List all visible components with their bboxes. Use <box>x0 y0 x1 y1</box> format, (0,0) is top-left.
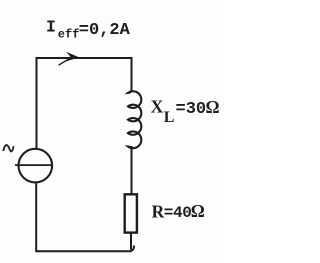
wire: right vertical bottom segment <box>131 233 134 251</box>
svg-text:X: X <box>151 96 164 116</box>
svg-text:I: I <box>46 18 56 37</box>
wire: left vertical bottom segment <box>35 183 37 252</box>
label XL = 30 ohm <box>151 96 220 126</box>
svg-text:L: L <box>164 109 175 126</box>
svg-text:=0,2A: =0,2A <box>79 21 131 40</box>
wire: bottom horizontal <box>36 250 132 252</box>
svg-text:=40: =40 <box>164 204 192 222</box>
wire: top horizontal <box>37 57 132 59</box>
wire: right vertical middle segment <box>131 146 133 195</box>
AC source G <box>15 149 52 183</box>
svg-text:Ω: Ω <box>206 97 220 117</box>
inductor L (XL) <box>128 90 141 150</box>
AC waveform tilde <box>3 145 13 151</box>
current direction arrow <box>59 52 80 65</box>
svg-text:eff: eff <box>58 28 80 42</box>
label R = 40 ohm <box>152 201 205 222</box>
resistor R <box>125 194 137 232</box>
wire: right vertical top segment <box>131 57 133 91</box>
svg-text:=30: =30 <box>176 100 207 119</box>
wire: left vertical top segment <box>36 57 38 148</box>
label Ieff = 0,2A <box>46 18 131 42</box>
svg-text:Ω: Ω <box>191 201 205 221</box>
svg-text:R: R <box>152 202 165 222</box>
